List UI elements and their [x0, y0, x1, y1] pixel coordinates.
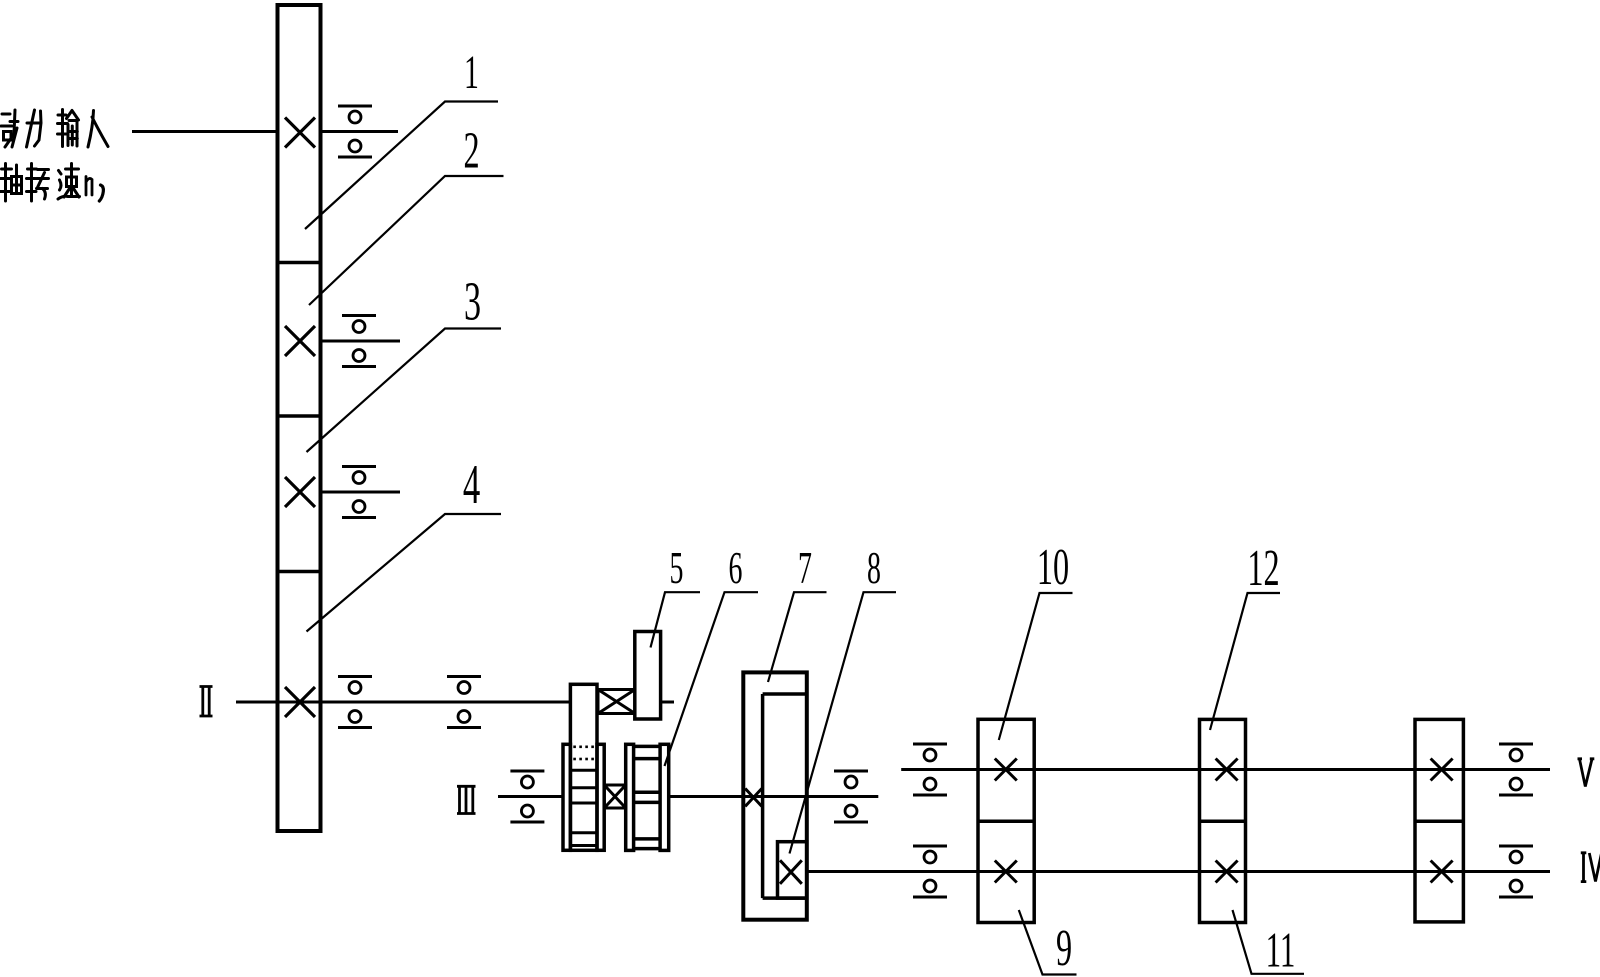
- svg-text:1: 1: [464, 45, 479, 99]
- svg-text:5: 5: [670, 544, 684, 593]
- svg-text:4: 4: [463, 454, 480, 517]
- svg-text:10: 10: [1037, 538, 1069, 596]
- svg-text:3: 3: [464, 270, 481, 331]
- svg-text:2: 2: [463, 122, 479, 180]
- svg-text:8: 8: [867, 544, 881, 593]
- svg-text:7: 7: [798, 544, 812, 593]
- svg-text:6: 6: [729, 544, 743, 593]
- svg-text:9: 9: [1056, 919, 1072, 977]
- svg-text:11: 11: [1266, 922, 1296, 977]
- svg-text:12: 12: [1247, 539, 1279, 597]
